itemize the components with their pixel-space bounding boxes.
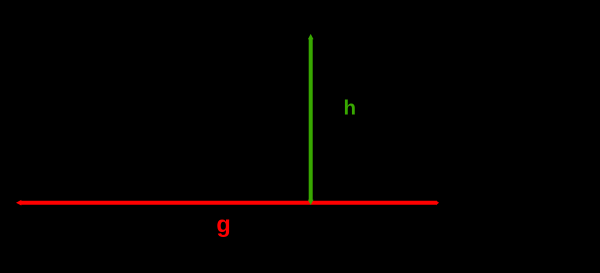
line g (red horizontal) [16,200,439,206]
svg-text:g: g [216,211,230,237]
bottom arrowhead of h [308,200,314,205]
top arrowhead of h [308,34,314,39]
wire [309,38,313,201]
wire [20,201,436,205]
right arrowhead of g [436,200,439,205]
left arrowhead of g [16,200,21,206]
svg-text:h: h [344,97,357,120]
line h (green vertical) [308,34,314,205]
